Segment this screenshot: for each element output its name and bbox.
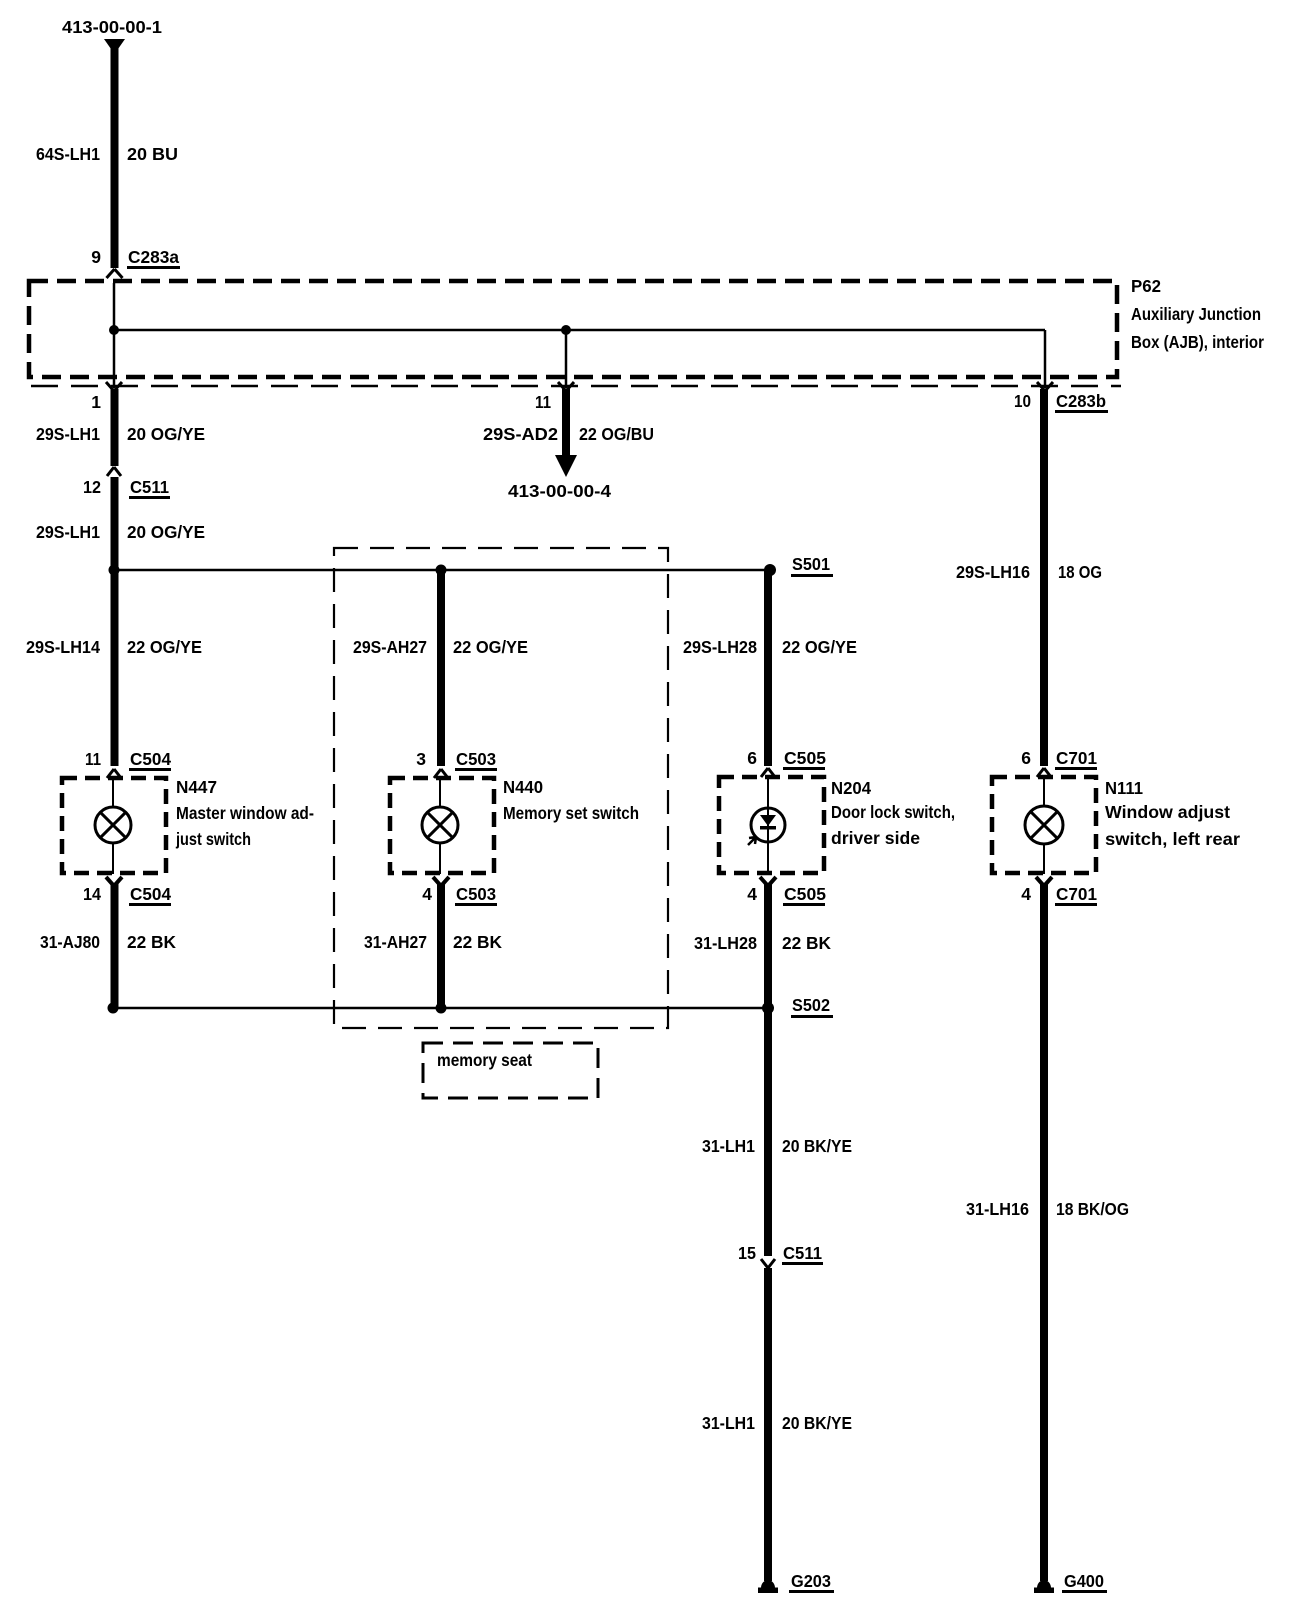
- ground G400 symbol: [1037, 1580, 1051, 1588]
- svg-text:29S-LH28: 29S-LH28: [683, 637, 757, 657]
- wire 29S-LH14 22 OG/YE (column A to N447): [111, 570, 119, 766]
- connector symbol at C504 pin 14: [106, 877, 122, 886]
- svg-text:31-AH27: 31-AH27: [364, 932, 427, 952]
- svg-text:P62: P62: [1131, 276, 1161, 296]
- connector symbol at C504 pin 11: [107, 769, 121, 778]
- connector symbol at C701 pin 6: [1037, 768, 1051, 777]
- wire 29S-LH1 20 OG/YE (column A, C511 to splice): [111, 477, 119, 572]
- svg-text:11: 11: [535, 392, 551, 412]
- svg-text:64S-LH1: 64S-LH1: [36, 144, 100, 164]
- svg-text:413-00-00-4: 413-00-00-4: [508, 481, 611, 501]
- feed arrow from page 413-00-00-1: [104, 39, 125, 54]
- svg-text:S502: S502: [792, 995, 830, 1015]
- svg-text:22 OG/YE: 22 OG/YE: [127, 637, 202, 657]
- wire 29S-LH28 22 OG/YE (column C from S501): [764, 570, 772, 766]
- connector symbol at C511 pin 12: [107, 467, 121, 476]
- N447 internal lead (top): [112, 778, 114, 807]
- N111 internal lead (bottom): [1043, 844, 1045, 874]
- svg-text:G203: G203: [791, 1571, 831, 1591]
- wire drop to pin 10 inside AJB: [1044, 330, 1047, 388]
- junction node column A at branch: [109, 565, 120, 576]
- svg-text:C283b: C283b: [1056, 391, 1106, 411]
- svg-text:15: 15: [738, 1243, 756, 1263]
- connector symbol at C283a: [107, 269, 123, 278]
- bus wire inside AJB: horizontal distribution: [114, 329, 1045, 332]
- P62 Auxiliary Junction Box (dashed outline): [29, 281, 1117, 377]
- svg-text:Master window ad-: Master window ad-: [176, 803, 314, 823]
- svg-text:just switch: just switch: [175, 829, 251, 849]
- svg-text:G400: G400: [1064, 1571, 1104, 1591]
- wire 31-AJ80 22 BK (column A to splice S502): [111, 884, 119, 1008]
- svg-text:Memory set switch: Memory set switch: [503, 803, 639, 823]
- svg-text:18 BK/OG: 18 BK/OG: [1056, 1199, 1129, 1219]
- splice branch wire to S501: [114, 569, 770, 572]
- N204 internal lead: [767, 777, 769, 873]
- N111 internal lead (top): [1043, 777, 1045, 806]
- wire 64S-LH1 20 BU (column A upper): [111, 48, 119, 268]
- junction node at pin 11 drop: [561, 325, 571, 335]
- svg-text:N111: N111: [1105, 778, 1143, 798]
- N447 internal lead (bottom): [112, 843, 114, 874]
- N204 door lock switch dashed box: [719, 777, 824, 873]
- junction node column A at S502 branch: [108, 1003, 119, 1014]
- svg-text:Window adjust: Window adjust: [1105, 802, 1230, 822]
- svg-text:3: 3: [416, 749, 426, 769]
- wire 31-LH1 20 BK/YE (column C below S502): [764, 1008, 772, 1256]
- junction node at column A: [109, 325, 119, 335]
- wire 31-AH27 22 BK (column B to splice S502): [437, 884, 445, 1008]
- svg-text:31-LH28: 31-LH28: [694, 933, 757, 953]
- svg-text:driver side: driver side: [831, 828, 920, 848]
- N440 internal lead (bottom): [439, 843, 441, 874]
- connector symbol at C503 pin 3: [434, 769, 448, 778]
- svg-text:29S-AD2: 29S-AD2: [483, 424, 558, 444]
- svg-text:20 BU: 20 BU: [127, 144, 178, 164]
- svg-text:C503: C503: [456, 749, 496, 769]
- bus wire inside AJB: vertical drop from pin 9: [113, 283, 116, 388]
- connector symbol at pin 10: [1037, 382, 1053, 391]
- svg-text:C505: C505: [784, 748, 826, 768]
- N204 indicator arrow: [748, 837, 756, 845]
- splice S502 node: [762, 1002, 774, 1014]
- svg-text:413-00-00-1: 413-00-00-1: [62, 17, 162, 37]
- svg-text:20 OG/YE: 20 OG/YE: [127, 522, 205, 542]
- svg-text:6: 6: [1021, 748, 1031, 768]
- svg-text:N440: N440: [503, 777, 543, 797]
- ground G203 symbol: [761, 1580, 775, 1588]
- svg-text:Door lock switch,: Door lock switch,: [831, 802, 955, 822]
- svg-text:C511: C511: [783, 1243, 822, 1263]
- svg-text:C504: C504: [130, 749, 171, 769]
- svg-text:22 BK: 22 BK: [127, 932, 176, 952]
- wire 29S-AD2 22 OG/BU (pin 11 drop): [562, 389, 570, 457]
- memory seat label box: [423, 1043, 598, 1098]
- svg-text:31-LH1: 31-LH1: [702, 1413, 755, 1433]
- svg-text:C701: C701: [1056, 748, 1097, 768]
- svg-text:22 BK: 22 BK: [453, 932, 502, 952]
- wire 31-LH16 18 BK/OG (column D to ground): [1040, 884, 1048, 1581]
- junction node column B at S502 branch: [436, 1003, 447, 1014]
- svg-text:22 BK: 22 BK: [782, 933, 831, 953]
- svg-text:C504: C504: [130, 884, 171, 904]
- splice S501 node: [764, 564, 776, 576]
- svg-text:S501: S501: [792, 554, 830, 574]
- N447 switch contact circle: [95, 807, 131, 843]
- splice wire to S502: [113, 1007, 768, 1010]
- svg-text:1: 1: [91, 392, 101, 412]
- wire 29S-LH16 18 OG (column D from AJB pin 10): [1040, 389, 1048, 766]
- wire 29S-AH27 22 OG/YE (column B): [437, 570, 445, 766]
- svg-text:22 OG/YE: 22 OG/YE: [782, 637, 857, 657]
- wire 29S-LH1 20 OG/YE (column A, AJB to C511): [111, 389, 119, 466]
- memory seat system dashed boundary box: [334, 548, 668, 1028]
- svg-text:Auxiliary Junction: Auxiliary Junction: [1131, 304, 1261, 324]
- svg-text:C511: C511: [130, 477, 169, 497]
- svg-text:29S-LH16: 29S-LH16: [956, 562, 1030, 582]
- svg-text:20 BK/YE: 20 BK/YE: [782, 1413, 852, 1433]
- svg-text:20 BK/YE: 20 BK/YE: [782, 1136, 852, 1156]
- junction node column B at branch: [436, 565, 447, 576]
- svg-text:C283a: C283a: [128, 247, 179, 267]
- wire 31-LH28 22 BK (column C to S502): [764, 884, 772, 1008]
- connector symbol at C511 pin 15: [761, 1259, 775, 1268]
- svg-text:memory seat: memory seat: [437, 1050, 532, 1070]
- svg-text:14: 14: [83, 884, 101, 904]
- svg-text:C503: C503: [456, 884, 496, 904]
- connector symbol at pin 11: [558, 382, 574, 391]
- svg-text:12: 12: [83, 477, 101, 497]
- wire 31-LH1 20 BK/YE (column C to ground): [764, 1268, 772, 1581]
- svg-text:4: 4: [1021, 884, 1031, 904]
- N111 switch contact circle: [1025, 806, 1063, 844]
- svg-text:31-LH1: 31-LH1: [702, 1136, 755, 1156]
- connector symbol at pin 1: [106, 382, 122, 391]
- N447 switch dashed box: [62, 778, 166, 873]
- svg-text:31-AJ80: 31-AJ80: [40, 932, 100, 952]
- svg-text:29S-LH1: 29S-LH1: [36, 424, 100, 444]
- connector symbol at C701 pin 4: [1036, 877, 1052, 886]
- svg-text:Box (AJB), interior: Box (AJB), interior: [1131, 332, 1264, 352]
- connector symbol at C505 pin 6: [761, 768, 775, 777]
- N440 switch dashed box: [390, 778, 494, 873]
- svg-text:9: 9: [91, 247, 101, 267]
- N440 internal lead (top): [439, 778, 441, 807]
- svg-text:20 OG/YE: 20 OG/YE: [127, 424, 205, 444]
- svg-text:10: 10: [1014, 391, 1031, 411]
- N204 indicator circle with diode: [751, 808, 785, 842]
- N440 switch contact circle: [422, 807, 458, 843]
- connector symbol at C505 pin 4: [760, 877, 776, 886]
- svg-text:N447: N447: [176, 777, 217, 797]
- svg-text:C701: C701: [1056, 884, 1097, 904]
- svg-text:22 OG/YE: 22 OG/YE: [453, 637, 528, 657]
- svg-text:6: 6: [747, 748, 757, 768]
- svg-text:29S-LH14: 29S-LH14: [26, 637, 100, 657]
- svg-text:4: 4: [747, 884, 757, 904]
- svg-text:18 OG: 18 OG: [1058, 562, 1102, 582]
- svg-text:11: 11: [85, 749, 101, 769]
- svg-text:22 OG/BU: 22 OG/BU: [579, 424, 654, 444]
- svg-text:N204: N204: [831, 778, 871, 798]
- N111 window adjust switch dashed box: [992, 777, 1096, 873]
- arrow to page 413-00-00-4: [555, 455, 577, 477]
- wire drop to pin 11 inside AJB: [565, 330, 568, 388]
- svg-text:29S-AH27: 29S-AH27: [353, 637, 427, 657]
- svg-text:switch, left rear: switch, left rear: [1105, 829, 1240, 849]
- second dashed line below AJB box: [31, 385, 1121, 388]
- svg-text:C505: C505: [784, 884, 826, 904]
- connector symbol at C503 pin 4: [433, 877, 449, 886]
- svg-text:29S-LH1: 29S-LH1: [36, 522, 100, 542]
- svg-text:31-LH16: 31-LH16: [966, 1199, 1029, 1219]
- svg-text:4: 4: [422, 884, 432, 904]
